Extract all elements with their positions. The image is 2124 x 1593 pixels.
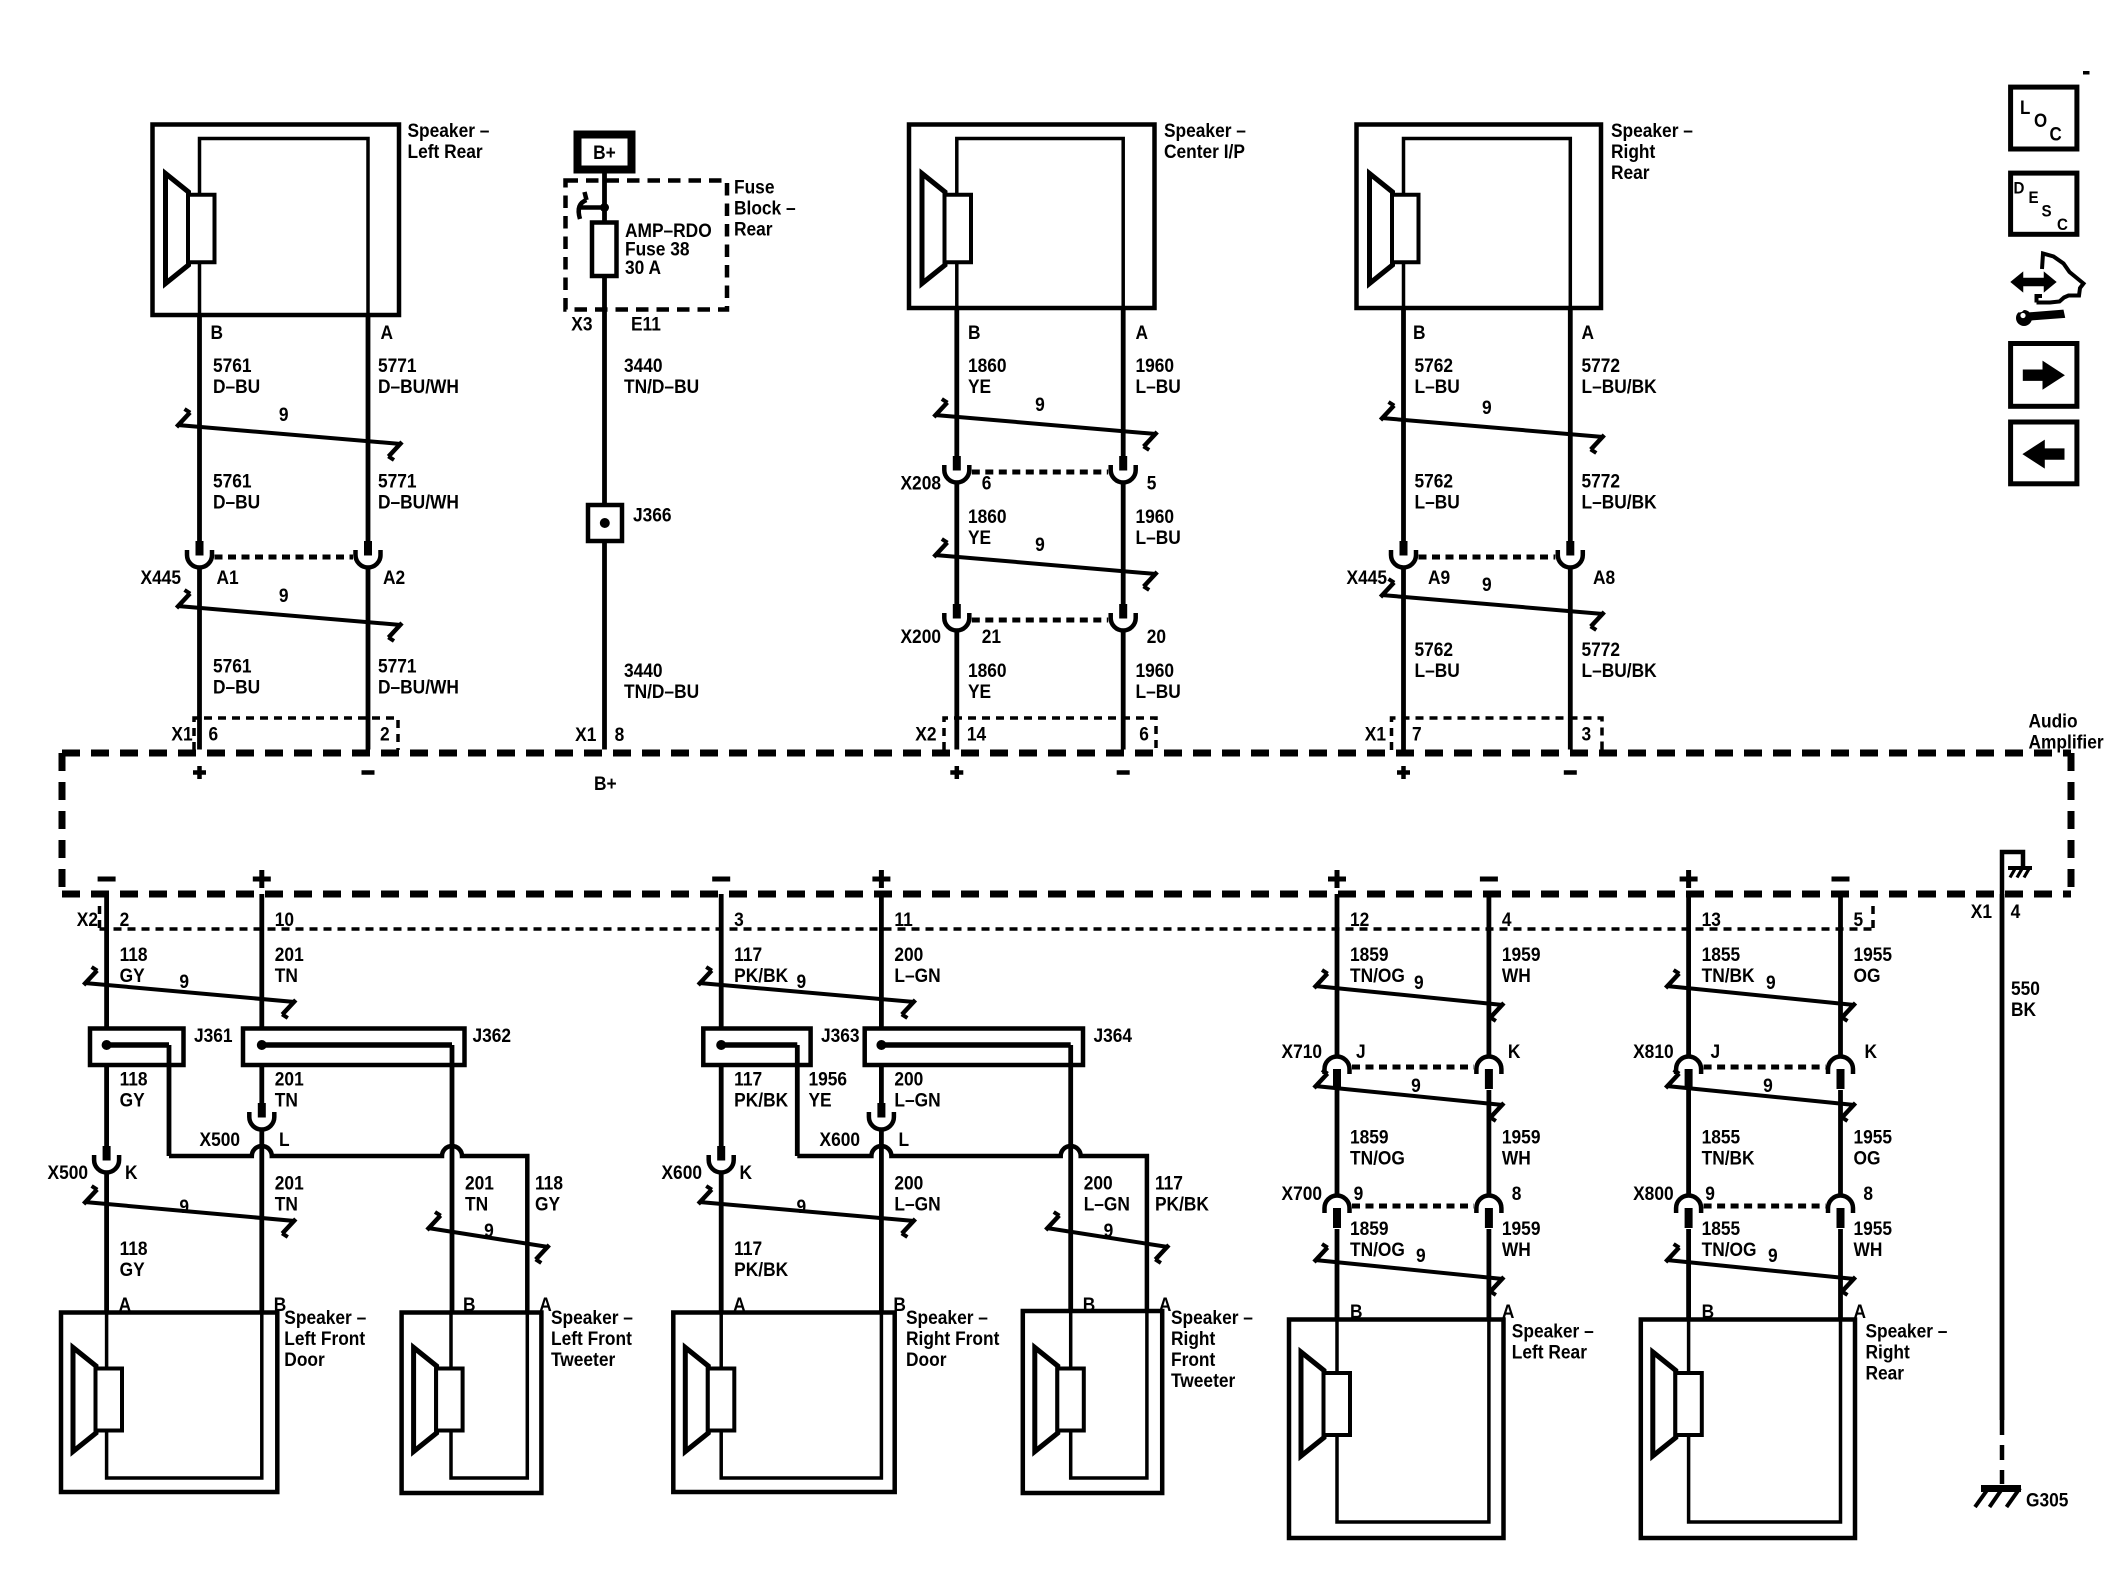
svg-text:L–BU: L–BU — [1135, 526, 1180, 548]
polarity + at X2-12 — [1328, 877, 1346, 882]
svg-text:TN: TN — [275, 964, 298, 986]
svg-text:Speaker –: Speaker – — [1611, 119, 1693, 141]
svg-text:6: 6 — [209, 723, 219, 745]
connector X445 pin A2 — [356, 541, 381, 568]
label 117 PK/BK (below amp) — [734, 943, 789, 986]
audio amplifier U1 dashed outline top border — [62, 750, 2071, 757]
svg-text:Left Front: Left Front — [551, 1327, 632, 1349]
svg-text:1860: 1860 — [968, 659, 1007, 681]
wire 5771 D-BU/WH below X445 — [366, 566, 371, 750]
label Speaker - Right Rear (bottom) — [1866, 1320, 1948, 1384]
svg-text:TN/OG: TN/OG — [1702, 1238, 1757, 1260]
svg-text:B: B — [968, 321, 981, 343]
label AMP-RDO Fuse 38 30 A — [625, 219, 712, 278]
svg-text:117: 117 — [734, 1068, 762, 1090]
fuse block rear dashed box — [566, 181, 728, 310]
polarity - at X2-6 — [1117, 770, 1130, 775]
svg-text:9: 9 — [796, 1195, 806, 1217]
svg-text:X1: X1 — [575, 723, 596, 745]
wire 118 GY below J361 — [104, 1065, 109, 1146]
svg-text:5762: 5762 — [1415, 354, 1454, 376]
splice J366 — [588, 505, 622, 541]
svg-text:Speaker –: Speaker – — [1512, 1320, 1594, 1342]
polarity - at X1-3 — [1564, 770, 1577, 775]
svg-text:A: A — [1135, 321, 1148, 343]
label Speaker - Right Front Door — [906, 1306, 999, 1370]
connector X600 pin K — [709, 1146, 734, 1173]
svg-text:5772: 5772 — [1582, 638, 1621, 660]
svg-text:1859: 1859 — [1350, 1217, 1389, 1239]
svg-text:L: L — [279, 1128, 290, 1150]
connector X445 pin A1 — [187, 541, 212, 568]
svg-text:9: 9 — [1354, 1182, 1364, 1204]
svg-text:YE: YE — [809, 1089, 832, 1111]
ground G305 symbol — [1975, 1488, 2021, 1508]
connector X710 pin K — [1476, 1057, 1501, 1090]
svg-text:5762: 5762 — [1415, 638, 1454, 660]
label 200 L-GN (below amp) — [894, 943, 940, 986]
polarity + at X2-14 — [950, 770, 963, 775]
splice J364 — [865, 1029, 1083, 1066]
wire 5772 L-BU/BK below X445 — [1568, 566, 1573, 750]
label 1855 TN/BK (below amp) — [1702, 943, 1756, 986]
wire 3440 TN/D-BU below fuse — [602, 276, 607, 505]
wire B+ to fuse — [602, 170, 607, 223]
fuse clip hook — [585, 192, 587, 200]
label 117 PK/BK (tweeter branch) — [1155, 1172, 1210, 1215]
branch wire of J361 to tweeter (118 GY) — [167, 1045, 172, 1156]
svg-text:1959: 1959 — [1502, 943, 1541, 965]
icon DESC button — [2011, 173, 2077, 234]
svg-text:9: 9 — [1705, 1182, 1715, 1204]
label 5762 L-BU (lower) — [1415, 638, 1460, 681]
svg-text:Tweeter: Tweeter — [551, 1348, 615, 1370]
svg-text:D–BU: D–BU — [213, 676, 260, 698]
svg-text:YE: YE — [968, 526, 991, 548]
twisted pair symbol 9 (tweeter left) — [427, 1212, 549, 1263]
svg-text:G305: G305 — [2026, 1489, 2068, 1511]
svg-text:1860: 1860 — [968, 354, 1007, 376]
svg-text:Amplifier: Amplifier — [2028, 731, 2103, 753]
label Speaker - Left Front Door — [284, 1306, 366, 1370]
wire 1955 OG between X810 and X800 — [1838, 1090, 1843, 1196]
svg-text:Center I/P: Center I/P — [1164, 140, 1245, 162]
svg-text:X1: X1 — [171, 723, 192, 745]
branch wire 1956 YE of J363 to tweeter — [795, 1045, 800, 1156]
svg-text:TN/OG: TN/OG — [1350, 1238, 1405, 1260]
polarity + at X2-10 — [253, 877, 271, 882]
wire 117 PK/BK below X600-K to door speaker pin A — [719, 1171, 724, 1313]
svg-text:200: 200 — [1084, 1172, 1113, 1194]
label 200 L-GN (below J364) — [894, 1068, 940, 1111]
svg-text:9: 9 — [1104, 1219, 1114, 1241]
svg-text:J361: J361 — [194, 1024, 233, 1046]
wire 1955 OG from amp pin 5 — [1838, 894, 1843, 1057]
svg-text:Rear: Rear — [734, 218, 773, 240]
amplifier connector X1 pin box (pins 7 and 3) — [1392, 718, 1603, 750]
svg-text:X200: X200 — [901, 625, 941, 647]
speaker SPK7 Right Front Tweeter — [1023, 1311, 1162, 1493]
label 1956 YE (J363 branch) — [809, 1068, 848, 1111]
label 118 GY (bottom) — [120, 1237, 148, 1280]
amplifier connector X1 pin box (pins 6 and 2) — [194, 718, 398, 750]
twisted pair symbol (1859/1959 lower) — [1314, 1244, 1504, 1295]
twisted pair symbol 9 (left rear, lower) — [177, 584, 403, 641]
label 1959 WH (below amp) — [1502, 943, 1541, 986]
svg-text:D–BU: D–BU — [213, 491, 260, 513]
amplifier connector X2 pin box (pins 14 and 6) — [944, 718, 1156, 750]
svg-text:J: J — [1710, 1040, 1720, 1062]
label 117 PK/BK (below J363) — [734, 1068, 789, 1111]
svg-text:J362: J362 — [473, 1024, 512, 1046]
svg-text:3: 3 — [734, 908, 744, 930]
svg-text:118: 118 — [120, 1068, 148, 1090]
svg-text:9: 9 — [179, 970, 189, 992]
label 201 TN (below amp) — [275, 943, 304, 986]
label 200 L-GN (tweeter branch) — [1084, 1172, 1130, 1215]
label 1859 TN/OG (below amp) — [1350, 943, 1405, 986]
wire 201 TN from amp pin 10 — [259, 894, 264, 1029]
svg-text:B+: B+ — [594, 772, 617, 794]
svg-text:L: L — [2020, 97, 2030, 118]
svg-text:1960: 1960 — [1135, 505, 1174, 527]
svg-text:WH: WH — [1502, 1238, 1531, 1260]
wire 1859 TN/OG from amp pin 12 — [1335, 894, 1340, 1057]
svg-text:5772: 5772 — [1582, 354, 1621, 376]
label Speaker - Left Rear (bottom) — [1512, 1320, 1594, 1363]
svg-text:5761: 5761 — [213, 354, 252, 376]
connector X700 dashed boundary — [1352, 1204, 1474, 1209]
svg-text:Door: Door — [906, 1348, 946, 1370]
connector X800 dashed boundary — [1704, 1204, 1826, 1209]
svg-text:5761: 5761 — [213, 655, 252, 677]
svg-text:5761: 5761 — [213, 470, 252, 492]
label 118 GY (tweeter branch) — [535, 1172, 563, 1215]
label 118 GY (below J361) — [120, 1068, 148, 1111]
svg-text:L–BU/BK: L–BU/BK — [1582, 491, 1658, 513]
svg-text:Front: Front — [1171, 1348, 1215, 1370]
svg-text:5772: 5772 — [1582, 470, 1621, 492]
svg-text:5771: 5771 — [378, 354, 417, 376]
svg-text:11: 11 — [894, 908, 912, 930]
twisted pair symbol 9 (118/201 upper) — [84, 967, 296, 1018]
speaker SPK5 Left Front Tweeter — [402, 1313, 542, 1494]
svg-text:117: 117 — [734, 1237, 762, 1259]
svg-text:1855: 1855 — [1702, 1126, 1741, 1148]
svg-text:1859: 1859 — [1350, 943, 1389, 965]
svg-text:200: 200 — [894, 943, 923, 965]
wire 1959 WH between X710 and X700 — [1487, 1090, 1492, 1196]
svg-text:Rear: Rear — [1611, 161, 1650, 183]
svg-text:C: C — [2057, 215, 2068, 234]
svg-text:1956: 1956 — [809, 1068, 848, 1090]
label Speaker - Left Front Tweeter — [551, 1306, 633, 1370]
icon LOC button — [2011, 87, 2077, 149]
svg-text:TN/BK: TN/BK — [1702, 1147, 1756, 1169]
wire 1859 TN/OG between X710 and X700 — [1335, 1090, 1340, 1196]
connector X445 pin A8 — [1558, 541, 1583, 568]
label Speaker - Center I/P — [1164, 119, 1246, 162]
audio amplifier left border — [59, 753, 66, 894]
svg-text:Fuse: Fuse — [734, 176, 774, 198]
svg-text:GY: GY — [120, 1258, 145, 1280]
svg-text:BK: BK — [2011, 998, 2037, 1020]
svg-text:L–GN: L–GN — [894, 964, 940, 986]
label 5771 D-BU/WH (lower) — [378, 655, 459, 698]
svg-text:1959: 1959 — [1502, 1126, 1541, 1148]
svg-text:YE: YE — [968, 680, 991, 702]
label 1860 YE (middle) — [968, 505, 1007, 548]
speaker SPK2 Center I/P (box and cone icon) — [909, 125, 1155, 309]
svg-text:201: 201 — [465, 1172, 494, 1194]
svg-text:Speaker –: Speaker – — [551, 1306, 633, 1328]
polarity - at X1-2 — [362, 770, 375, 775]
svg-text:L–BU: L–BU — [1415, 491, 1460, 513]
svg-text:9: 9 — [796, 970, 806, 992]
svg-text:TN/D–BU: TN/D–BU — [624, 375, 699, 397]
svg-text:OG: OG — [1853, 1147, 1880, 1169]
twisted pair symbol 9 (1859/1959 middle) — [1314, 1070, 1504, 1121]
svg-text:2: 2 — [120, 908, 130, 930]
svg-text:Block –: Block – — [734, 197, 796, 219]
label Speaker - Right Rear — [1611, 119, 1693, 183]
label 550 BK — [2011, 977, 2040, 1020]
polarity - at X2-2 — [98, 877, 116, 882]
label 3440 TN/D-BU (upper) — [624, 354, 699, 397]
label 1955 OG (below amp) — [1853, 943, 1892, 986]
amplifier bottom connector dotted boundary — [100, 906, 1874, 929]
polarity + at X2-11 — [872, 877, 890, 882]
svg-text:GY: GY — [120, 1089, 145, 1111]
label 1860 YE (upper) — [968, 354, 1007, 397]
label Fuse Block - Rear — [734, 176, 796, 240]
svg-text:B: B — [1413, 321, 1426, 343]
svg-text:PK/BK: PK/BK — [1155, 1193, 1210, 1215]
svg-text:9: 9 — [1414, 971, 1424, 993]
svg-text:2: 2 — [380, 723, 390, 745]
label 1855 TN/OG (bottom) — [1702, 1217, 1757, 1260]
label 201 TN (tweeter branch) — [465, 1172, 494, 1215]
svg-text:YE: YE — [968, 375, 991, 397]
wire 5772 L-BU/BK upper segment — [1568, 308, 1573, 541]
svg-text:A: A — [1582, 321, 1595, 343]
svg-text:K: K — [125, 1161, 138, 1183]
svg-text:X500: X500 — [48, 1161, 88, 1183]
label 1960 L-BU (upper) — [1135, 354, 1180, 397]
svg-text:Left Front: Left Front — [284, 1327, 365, 1349]
svg-text:X208: X208 — [901, 472, 941, 494]
speaker SPK6 Right Front Door — [673, 1313, 894, 1493]
connector X710 dashed boundary — [1352, 1065, 1474, 1070]
svg-text:B: B — [211, 321, 224, 343]
label 5761 D-BU (middle) — [213, 470, 260, 513]
svg-text:5: 5 — [1147, 472, 1157, 494]
svg-text:X2: X2 — [915, 723, 936, 745]
label 118 GY (below amp) — [120, 943, 148, 986]
svg-text:TN: TN — [465, 1193, 488, 1215]
label Speaker - Left Rear — [408, 119, 490, 162]
svg-text:D: D — [2014, 179, 2025, 198]
connector X445 dashed boundary (right) — [1419, 555, 1556, 560]
svg-text:1859: 1859 — [1350, 1126, 1389, 1148]
svg-text:L–BU: L–BU — [1135, 375, 1180, 397]
svg-text:Left Rear: Left Rear — [1512, 1341, 1587, 1363]
label 1960 L-BU (middle) — [1135, 505, 1180, 548]
svg-text:X810: X810 — [1633, 1040, 1673, 1062]
connector X710 pin J — [1325, 1057, 1350, 1090]
svg-text:WH: WH — [1502, 1147, 1531, 1169]
svg-text:L–BU: L–BU — [1415, 375, 1460, 397]
svg-text:8: 8 — [615, 723, 625, 745]
splice J361 — [90, 1029, 184, 1066]
polarity + at X2-13 — [1680, 877, 1698, 882]
svg-text:X445: X445 — [141, 566, 181, 588]
svg-text:6: 6 — [982, 472, 992, 494]
svg-text:117: 117 — [1155, 1172, 1183, 1194]
label 5771 D-BU/WH (upper) — [378, 354, 459, 397]
svg-text:117: 117 — [734, 943, 762, 965]
svg-text:8: 8 — [1512, 1182, 1522, 1204]
svg-text:TN/D–BU: TN/D–BU — [624, 680, 699, 702]
svg-text:3440: 3440 — [624, 659, 663, 681]
label 1959 WH (middle) — [1502, 1126, 1541, 1169]
svg-text:X445: X445 — [1347, 566, 1387, 588]
svg-text:9: 9 — [179, 1195, 189, 1217]
svg-text:118: 118 — [535, 1172, 563, 1194]
connector X800 pin 8 — [1828, 1196, 1853, 1229]
label 117 PK/BK (bottom) — [734, 1237, 789, 1280]
label 1959 WH (bottom) — [1502, 1217, 1541, 1260]
svg-text:1960: 1960 — [1135, 354, 1174, 376]
svg-text:201: 201 — [275, 1172, 304, 1194]
svg-text:D–BU/WH: D–BU/WH — [378, 375, 459, 397]
label 5772 L-BU/BK (middle) — [1582, 470, 1658, 513]
twisted pair symbol 9 (right rear, upper) — [1381, 396, 1605, 453]
wire 1855 TN/BK from amp pin 13 — [1686, 894, 1691, 1057]
svg-text:Right: Right — [1171, 1327, 1215, 1349]
svg-text:A9: A9 — [1428, 566, 1450, 588]
wire 1855 TN/OG below X800 to right rear speaker — [1686, 1229, 1691, 1320]
twisted pair symbol 9 (tweeter right) — [1046, 1212, 1169, 1263]
svg-text:TN/OG: TN/OG — [1350, 1147, 1405, 1169]
svg-text:K: K — [1864, 1040, 1877, 1062]
svg-text:Speaker –: Speaker – — [284, 1306, 366, 1328]
connector X200 pin 20 — [1111, 604, 1136, 631]
svg-text:WH: WH — [1853, 1238, 1882, 1260]
svg-text:X3: X3 — [571, 313, 592, 335]
svg-text:9: 9 — [279, 584, 289, 606]
icon back-arrow button — [2011, 422, 2077, 484]
svg-text:L–BU/BK: L–BU/BK — [1582, 375, 1658, 397]
wire 1959 WH from amp pin 4 — [1487, 894, 1492, 1057]
twisted pair symbol 9 (right rear, lower) — [1381, 573, 1605, 630]
wire 1960 L-BU lower segment — [1121, 629, 1126, 750]
svg-text:TN: TN — [275, 1089, 298, 1111]
twisted pair symbol 9 (117/200 lower) — [698, 1186, 915, 1237]
label 5762 L-BU (upper) — [1415, 354, 1460, 397]
audio amplifier right border — [2068, 753, 2075, 894]
svg-text:9: 9 — [1411, 1074, 1421, 1096]
svg-text:K: K — [1508, 1040, 1521, 1062]
branch wire of J364 down to tweeter pin B (200 L-GN) — [1068, 1045, 1073, 1313]
svg-text:200: 200 — [894, 1068, 923, 1090]
svg-text:GY: GY — [535, 1193, 560, 1215]
twisted pair symbol 9 (center, upper) — [934, 393, 1157, 450]
branch wire of J362 down to tweeter pin B (201 TN) — [450, 1045, 455, 1313]
connector X600 pin L — [869, 1103, 894, 1130]
svg-text:1955: 1955 — [1853, 1217, 1892, 1239]
svg-text:9: 9 — [1035, 393, 1045, 415]
svg-text:9: 9 — [1763, 1074, 1773, 1096]
svg-text:L–GN: L–GN — [1084, 1193, 1130, 1215]
wire 201 TN below X500-L to door speaker pin B — [259, 1128, 264, 1313]
connector X700 pin 9 — [1325, 1196, 1350, 1229]
label Speaker - Right Front Tweeter — [1171, 1306, 1253, 1391]
wire 1960 L-BU middle segment — [1121, 481, 1126, 604]
svg-text:A8: A8 — [1593, 566, 1615, 588]
svg-text:A: A — [381, 321, 394, 343]
svg-text:3: 3 — [1582, 723, 1592, 745]
label 5772 L-BU/BK (upper) — [1582, 354, 1658, 397]
svg-text:TN/BK: TN/BK — [1702, 964, 1756, 986]
polarity + at X1-6 — [193, 770, 206, 775]
label 1859 TN/OG (middle) — [1350, 1126, 1405, 1169]
wire 1859 TN/OG below X700 to left rear speaker — [1335, 1229, 1340, 1320]
wire 5762 L-BU upper segment — [1401, 308, 1406, 541]
connector X810 pin J — [1676, 1057, 1701, 1090]
twisted pair symbol (1855/1955 lower) — [1666, 1244, 1856, 1295]
svg-text:20: 20 — [1147, 625, 1166, 647]
svg-text:Door: Door — [284, 1348, 324, 1370]
wire 200 L-GN below J364 — [879, 1065, 884, 1103]
label 3440 TN/D-BU (lower) — [624, 659, 699, 702]
svg-text:Right: Right — [1611, 140, 1655, 162]
svg-text:X1: X1 — [1971, 900, 1992, 922]
speaker SPK1 Left Rear (box and cone icon) — [153, 125, 400, 316]
svg-text:PK/BK: PK/BK — [734, 1258, 789, 1280]
svg-text:X600: X600 — [662, 1161, 702, 1183]
svg-text:4: 4 — [1502, 908, 1512, 930]
connector X700 pin 8 — [1476, 1196, 1501, 1229]
label 1960 L-BU (lower) — [1135, 659, 1180, 702]
svg-text:9: 9 — [1768, 1244, 1778, 1266]
wire 200 L-GN below X600-L to door speaker pin B — [879, 1128, 884, 1313]
wire 117 PK/BK from amp pin 3 — [719, 894, 724, 1029]
svg-text:TN/OG: TN/OG — [1350, 964, 1405, 986]
wire 1959 WH below X700 to left rear speaker — [1487, 1229, 1492, 1320]
label 1955 OG (middle) — [1853, 1126, 1892, 1169]
wire 1860 YE lower segment — [954, 629, 959, 750]
wire 5762 L-BU below X445 — [1401, 566, 1406, 750]
label 5772 L-BU/BK (lower) — [1582, 638, 1658, 681]
icon splice-view (arrows and wrench) — [2012, 254, 2084, 327]
wire 118 GY below X500-K to door speaker pin A — [104, 1171, 109, 1313]
svg-text:OG: OG — [1853, 964, 1880, 986]
svg-text:201: 201 — [275, 943, 304, 965]
connector X800 pin 9 — [1676, 1196, 1701, 1229]
wire 550 BK dashed segment — [2000, 1420, 2005, 1484]
svg-text:D–BU: D–BU — [213, 375, 260, 397]
svg-text:21: 21 — [982, 625, 1001, 647]
twisted pair symbol (1859/1959 upper) — [1314, 970, 1504, 1021]
label 5771 D-BU/WH (middle) — [378, 470, 459, 513]
scan mark top right — [2083, 71, 2090, 75]
svg-text:J364: J364 — [1093, 1024, 1132, 1046]
svg-text:201: 201 — [275, 1068, 304, 1090]
svg-text:O: O — [2034, 110, 2047, 131]
twisted pair symbol 9 (left rear, upper) — [177, 403, 403, 460]
svg-text:6: 6 — [1139, 723, 1149, 745]
